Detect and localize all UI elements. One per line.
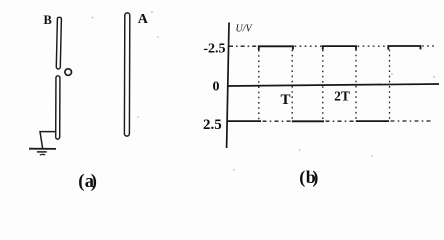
top guide dots [358,45,388,47]
svg-text:0: 0 [213,80,220,95]
svg-text:B: B [44,13,52,27]
plate A [124,13,129,136]
ground [29,149,56,155]
waveform top segment 2 [323,46,356,50]
svg-text:): ) [91,172,97,191]
waveform top segment 1 [259,46,293,50]
plate B lower segment [56,76,60,139]
caption (a) [78,172,97,192]
scan noise specks [92,11,435,171]
bottom guide dash-dot [263,120,292,122]
svg-text:T: T [280,92,290,108]
bottom guide dash-dot [326,120,356,122]
waveform bottom segment 1 (from axis) [227,120,261,122]
vertical dotted transition at 3T/2 [322,50,324,121]
vertical dotted transition at 2T [355,50,357,122]
wire from plate B to ground [40,132,56,149]
svg-text:): ) [312,167,318,188]
waveform bottom segment 3 [356,120,389,122]
top guide dots right tail [422,45,437,47]
svg-text:2T: 2T [334,89,350,104]
caption (b) [299,167,318,188]
vertical dotted transition at T [291,50,293,121]
t-axis [227,84,439,86]
hole circle on plate B [65,69,72,76]
svg-text:-2.5: -2.5 [203,42,225,57]
bottom guide dash-dot right tail [391,120,432,122]
waveform bottom segment 2 [292,120,324,122]
svg-text:(: ( [299,167,305,188]
vertical dotted transition at T/2 [258,50,260,121]
top guide dots between pulses [295,45,323,47]
y-axis U/V [227,23,229,149]
svg-text:U/V: U/V [236,24,254,35]
svg-text:2.5: 2.5 [203,117,222,133]
plate B upper segment [56,17,61,69]
vertical dotted transition at 5T/2 [389,50,391,121]
svg-text:A: A [138,12,149,27]
top guide dash-dot (axis to first pulse) [229,45,258,47]
svg-text:(: ( [78,172,84,191]
waveform top segment 3 [388,46,420,50]
